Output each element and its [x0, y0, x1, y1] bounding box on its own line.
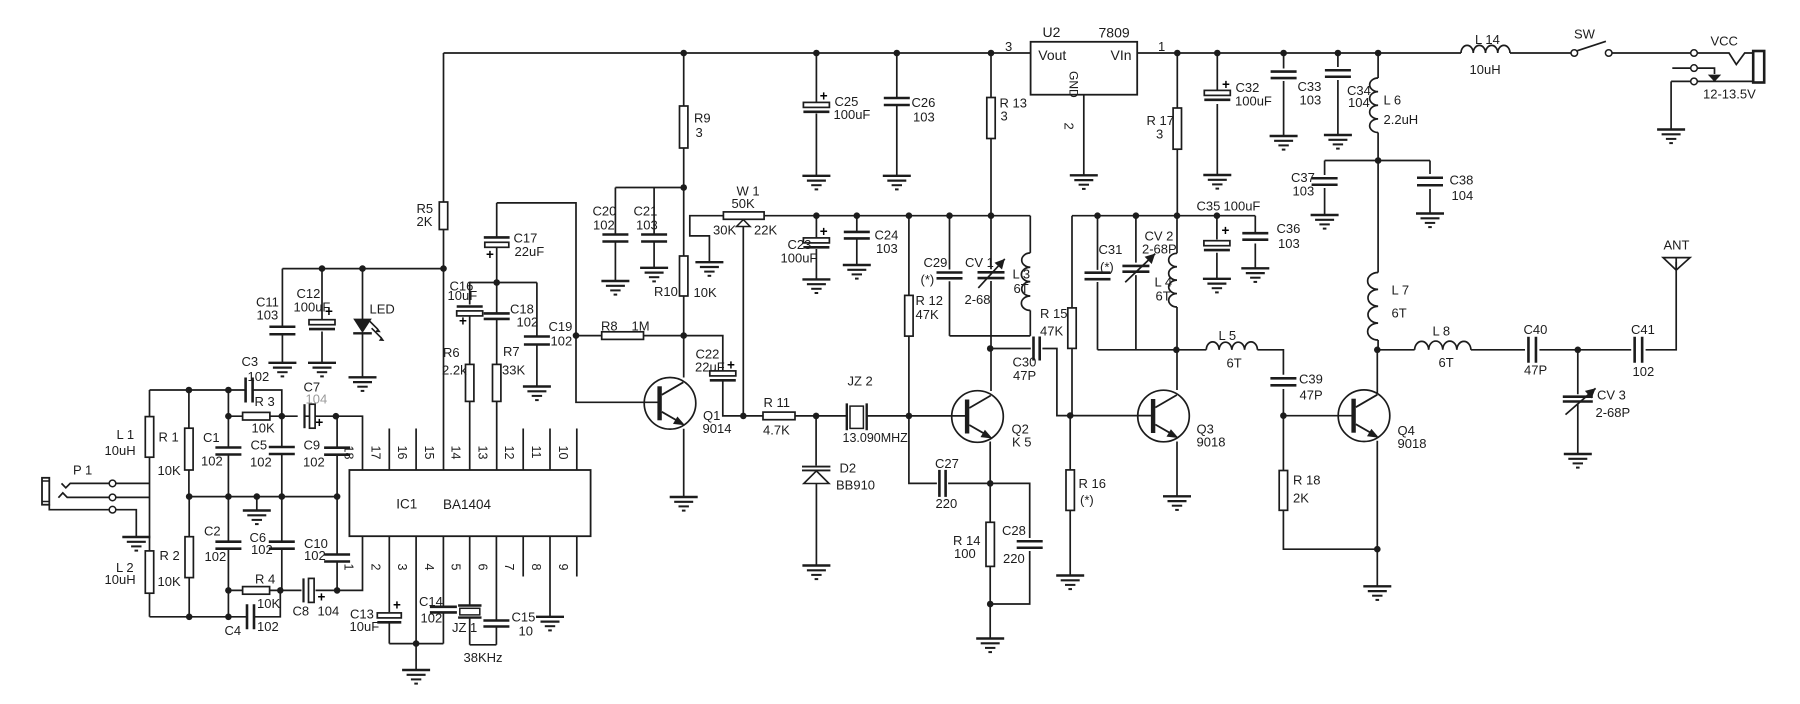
- wire C37: [1324, 161, 1326, 215]
- wire L4 line: [1176, 216, 1178, 350]
- svg-text:R 15: R 15: [1040, 306, 1067, 321]
- svg-text:5: 5: [449, 564, 463, 571]
- svg-text:C9: C9: [304, 438, 321, 453]
- svg-text:12: 12: [502, 446, 516, 460]
- wire C36: [1254, 216, 1256, 268]
- svg-text:102: 102: [1633, 364, 1655, 379]
- capacitor C22: [710, 358, 736, 381]
- ground C35: [1203, 279, 1231, 293]
- svg-text:100uF: 100uF: [294, 300, 331, 315]
- ground C11: [268, 363, 296, 377]
- resistor R9: [680, 106, 688, 148]
- resistor R17: [1173, 108, 1181, 149]
- ground Q1 emitter: [670, 497, 698, 511]
- wire C17: [496, 203, 498, 283]
- node R9 rail: [680, 50, 687, 57]
- svg-text:C29: C29: [924, 255, 948, 270]
- wire VCC sleeve: [1671, 80, 1753, 82]
- node CV2 rail: [1133, 212, 1140, 219]
- wire R9 top: [683, 53, 685, 106]
- capacitor C37: [1312, 178, 1338, 185]
- ground C12: [308, 363, 336, 377]
- wire L1-L2: [149, 457, 151, 551]
- node D2: [813, 413, 820, 420]
- wire tip contact: [62, 483, 110, 487]
- resistor R5: [439, 202, 447, 230]
- svg-text:15: 15: [422, 446, 436, 460]
- node R15-R16: [1067, 412, 1074, 419]
- svg-text:6T: 6T: [1439, 355, 1454, 370]
- svg-text:L 8: L 8: [1433, 324, 1451, 339]
- node CV1 rail: [988, 212, 995, 219]
- node C24 rail: [854, 212, 861, 219]
- svg-text:BB910: BB910: [836, 478, 875, 493]
- wire R15 line: [1071, 216, 1073, 416]
- resistor R2: [185, 537, 193, 578]
- wire C33: [1283, 53, 1285, 136]
- node wiper-R11: [740, 413, 747, 420]
- svg-text:R8: R8: [601, 319, 618, 334]
- wire C21: [653, 188, 655, 268]
- wire C20 C21 top: [615, 187, 683, 189]
- capacitor C14: [430, 607, 457, 613]
- capacitor C18: [484, 313, 510, 319]
- wire sleeve: [49, 505, 109, 510]
- ground W1: [695, 262, 723, 276]
- svg-text:22K: 22K: [754, 223, 777, 238]
- svg-text:C3: C3: [242, 354, 259, 369]
- wire L8 C40 C41 ANT: [1471, 262, 1676, 350]
- wire C38: [1429, 161, 1431, 214]
- wire base to C27: [909, 416, 937, 484]
- ground pin 8: [536, 617, 564, 631]
- svg-text:R10: R10: [654, 284, 678, 299]
- svg-text:47P: 47P: [1524, 363, 1547, 378]
- svg-text:VCC: VCC: [1711, 34, 1738, 49]
- svg-text:C36: C36: [1277, 221, 1301, 236]
- wire L5 to C39: [1257, 350, 1283, 416]
- wire Q2 collector: [990, 336, 992, 391]
- svg-text:103: 103: [1293, 184, 1315, 199]
- wire to C8: [280, 589, 301, 591]
- capacitor C21: [641, 235, 667, 242]
- capacitor C1: [215, 448, 241, 455]
- node Q2 collector: [987, 345, 994, 352]
- node mid gnd: [253, 493, 260, 500]
- svg-text:ANT: ANT: [1664, 238, 1690, 253]
- svg-text:9018: 9018: [1398, 436, 1427, 451]
- svg-text:R9: R9: [694, 111, 711, 126]
- svg-text:3: 3: [395, 564, 409, 571]
- ground C32: [1203, 175, 1231, 189]
- ground C19: [523, 387, 551, 401]
- tuning arrow CV2: [1125, 254, 1155, 283]
- svg-text:P 1: P 1: [73, 463, 92, 478]
- svg-text:1: 1: [1158, 39, 1165, 54]
- svg-text:(*): (*): [1100, 260, 1114, 275]
- svg-text:10: 10: [556, 446, 570, 460]
- node C7-C9: [333, 413, 340, 420]
- capacitor C32: [1204, 77, 1230, 100]
- wire to L8: [1377, 349, 1414, 351]
- svg-text:GND: GND: [1067, 71, 1081, 98]
- capacitor C25: [803, 89, 829, 112]
- node Q4 emitter-R18: [1374, 546, 1381, 553]
- wire C25: [815, 53, 817, 176]
- wire R4 leads: [228, 589, 280, 591]
- svg-text:6T: 6T: [1156, 289, 1171, 304]
- svg-text:38KHz: 38KHz: [464, 650, 503, 665]
- svg-text:102: 102: [250, 455, 272, 470]
- wire C12 drop: [321, 269, 323, 320]
- capacitor C10: [324, 555, 350, 562]
- wire C23: [815, 216, 817, 279]
- svg-text:LED: LED: [370, 302, 395, 317]
- svg-text:R6: R6: [443, 345, 460, 360]
- wire pin9 stub: [576, 536, 578, 576]
- crystal JZ2 13.090MHZ: [847, 403, 867, 430]
- inductor L8: [1415, 341, 1471, 350]
- ground C37: [1311, 215, 1339, 229]
- node R9-R10: [680, 184, 687, 191]
- svg-text:C5: C5: [251, 438, 268, 453]
- wire pin 10 stub: [576, 429, 578, 471]
- wire tip to L1: [116, 482, 150, 484]
- varactor diode D2 BB910: [802, 467, 830, 484]
- svg-text:7809: 7809: [1099, 25, 1130, 41]
- resistor R13: [987, 98, 995, 139]
- capacitor C17: [484, 237, 510, 262]
- ground Q3 emitter: [1163, 496, 1191, 510]
- node C9-C10: [334, 493, 341, 500]
- capacitor C23: [803, 224, 829, 247]
- capacitor C28: [1017, 541, 1043, 548]
- wire bottom rail C4: [150, 590, 281, 616]
- inductor L5: [1206, 342, 1257, 350]
- svg-text:102: 102: [421, 611, 443, 626]
- svg-text:14: 14: [449, 446, 463, 460]
- ground pins 2-4: [402, 670, 430, 684]
- svg-text:220: 220: [936, 496, 958, 511]
- wire R12 line: [908, 216, 910, 416]
- capacitor C16: [457, 307, 483, 329]
- node Q2 emitter: [987, 480, 994, 487]
- wire ring contact: [58, 493, 109, 498]
- node R4 right: [277, 587, 284, 594]
- transistor Q4: [1338, 390, 1390, 442]
- wire mid gnd rail: [189, 496, 337, 498]
- svg-text:L 14: L 14: [1475, 32, 1500, 47]
- svg-text:102: 102: [593, 218, 615, 233]
- capacitor C27: [939, 470, 945, 497]
- wire C18-R7: [496, 283, 498, 365]
- wire R8 leads: [576, 335, 684, 337]
- svg-text:102: 102: [248, 369, 270, 384]
- ground C25: [802, 176, 830, 190]
- node L4 rail: [1174, 212, 1181, 219]
- node C32 rail: [1214, 50, 1221, 57]
- svg-text:10K: 10K: [257, 596, 280, 611]
- capacitor C12: [309, 304, 335, 329]
- svg-text:10K: 10K: [694, 285, 717, 300]
- wire R13 top: [990, 53, 992, 98]
- svg-text:L 3: L 3: [1013, 267, 1031, 282]
- svg-text:104: 104: [1348, 95, 1370, 110]
- svg-text:L 7: L 7: [1392, 283, 1410, 298]
- svg-text:100: 100: [954, 546, 976, 561]
- svg-text:2.2uH: 2.2uH: [1384, 112, 1419, 127]
- ground Q2 emitter: [976, 639, 1004, 653]
- capacitor C2: [215, 542, 241, 549]
- wire Q4 collector: [1376, 350, 1378, 394]
- ground C34: [1324, 135, 1352, 149]
- ground P1 sleeve: [122, 537, 150, 551]
- wire LED drop: [362, 269, 364, 319]
- svg-text:(*): (*): [1080, 493, 1094, 508]
- wire C2 line: [227, 497, 229, 591]
- wire C16-R6: [469, 283, 471, 365]
- potentiometer W1: [723, 212, 764, 227]
- svg-text:+: +: [315, 415, 323, 430]
- svg-text:11: 11: [529, 446, 543, 459]
- svg-text:100uF: 100uF: [1235, 94, 1272, 109]
- wire W1 left gnd: [690, 216, 724, 262]
- wire C19: [536, 283, 538, 387]
- wire C29 line: [949, 216, 951, 336]
- ground LED: [349, 377, 377, 391]
- wire pin2 C13: [388, 536, 390, 643]
- svg-text:104: 104: [1452, 188, 1474, 203]
- capacitor C34: [1325, 70, 1351, 77]
- wire R1 line: [188, 390, 190, 497]
- svg-text:220: 220: [1003, 551, 1025, 566]
- wire pin13: [496, 401, 498, 470]
- wire C34: [1337, 53, 1339, 135]
- wire C10 line: [336, 497, 338, 591]
- wire C37 C38 row: [1325, 160, 1430, 162]
- wire tank2 rail: [1072, 215, 1255, 217]
- svg-text:100uF: 100uF: [834, 107, 871, 122]
- svg-text:33K: 33K: [502, 363, 525, 378]
- svg-text:6T: 6T: [1392, 306, 1407, 321]
- svg-text:BA1404: BA1404: [443, 497, 492, 512]
- wire R9-R10: [683, 148, 685, 256]
- wire tank1 bottom: [950, 335, 1031, 337]
- svg-text:104: 104: [318, 604, 340, 619]
- wire R18 loop: [1283, 416, 1377, 550]
- capacitor C41: [1635, 337, 1643, 363]
- wire R11 left: [743, 415, 763, 417]
- inductor L14: [1461, 45, 1510, 53]
- wire L6: [1377, 53, 1379, 161]
- svg-text:IC1: IC1: [396, 497, 417, 512]
- wire C7 left: [282, 415, 298, 417]
- svg-text:10uH: 10uH: [105, 443, 136, 458]
- node L6-L7: [1375, 157, 1382, 164]
- wire pin4 C14: [442, 536, 444, 643]
- wire sleeve gnd: [116, 510, 137, 536]
- wire C6 line: [281, 497, 283, 591]
- svg-text:102: 102: [303, 455, 325, 470]
- svg-text:102: 102: [205, 549, 227, 564]
- inductor L3: [1021, 253, 1030, 311]
- svg-text:C38: C38: [1450, 173, 1474, 188]
- wire C16-C19 row: [470, 282, 537, 284]
- wire C32: [1216, 53, 1218, 175]
- capacitor C7: [305, 404, 324, 430]
- capacitor C31: [1085, 273, 1111, 280]
- node C31 rail: [1094, 212, 1101, 219]
- wire L14 to SW: [1510, 52, 1571, 54]
- wire top rail left: [444, 52, 1031, 54]
- resistor R18: [1279, 471, 1287, 511]
- svg-text:U2: U2: [1043, 24, 1061, 40]
- wire R5 top: [443, 53, 445, 202]
- wire pin18: [337, 416, 362, 470]
- svg-text:103: 103: [257, 308, 279, 323]
- svg-text:+: +: [820, 89, 828, 104]
- capacitor C3: [246, 378, 253, 403]
- svg-text:R7: R7: [503, 344, 520, 359]
- node C26 rail: [894, 50, 901, 57]
- wire C5 line: [281, 416, 283, 496]
- svg-text:C39: C39: [1299, 372, 1323, 387]
- wire C31 line: [1097, 216, 1099, 350]
- svg-text:L 6: L 6: [1384, 93, 1402, 108]
- ground U2: [1070, 175, 1098, 189]
- node Q4 base: [1280, 412, 1287, 419]
- svg-text:C40: C40: [1524, 322, 1548, 337]
- node R13 rail: [988, 50, 995, 57]
- capacitor C30: [1034, 337, 1040, 361]
- resistor R3: [243, 412, 270, 420]
- ground D2: [802, 566, 830, 580]
- svg-text:10uF: 10uF: [350, 619, 380, 634]
- capacitor C33: [1271, 72, 1297, 79]
- wire Q4 base: [1283, 415, 1351, 417]
- connector pin circle: [109, 480, 116, 487]
- svg-text:47K: 47K: [916, 307, 939, 322]
- svg-text:30K: 30K: [713, 223, 736, 238]
- capacitor C35: [1204, 223, 1230, 250]
- wire gnd drop 234: [415, 644, 417, 670]
- node R1 top: [186, 387, 193, 394]
- wire Q4 emitter gnd: [1376, 441, 1378, 586]
- svg-text:50K: 50K: [732, 196, 755, 211]
- node pin3 gnd: [413, 640, 420, 647]
- node L6 rail: [1375, 50, 1382, 57]
- wire C7 right: [306, 415, 336, 417]
- tuning arrow CV3: [1566, 388, 1596, 414]
- wire C35: [1216, 216, 1218, 279]
- node Q3 collector: [1173, 347, 1180, 354]
- wire Q3 collector: [1176, 350, 1178, 390]
- resistor R12: [905, 295, 913, 336]
- svg-text:9014: 9014: [703, 421, 732, 436]
- svg-text:4: 4: [422, 564, 436, 571]
- wire pin6 C15: [495, 536, 497, 645]
- capacitor C38: [1417, 178, 1443, 186]
- wire R17: [1176, 53, 1178, 216]
- capacitor C5: [269, 447, 295, 454]
- svg-text:104: 104: [306, 392, 328, 407]
- ground C20: [601, 281, 629, 295]
- svg-text:C35: C35: [1197, 199, 1221, 214]
- capacitor CV2: [1122, 266, 1149, 272]
- svg-text:103: 103: [1300, 93, 1322, 108]
- ground C24: [843, 265, 871, 279]
- wire C11 drop: [281, 269, 283, 327]
- resistor R14: [986, 522, 994, 566]
- svg-text:C15: C15: [512, 610, 536, 625]
- wire pin3: [415, 536, 417, 643]
- wire JZ2-R12: [867, 415, 909, 417]
- node R17 rail: [1174, 50, 1181, 57]
- svg-text:+: +: [486, 247, 494, 262]
- svg-text:2: 2: [368, 564, 382, 571]
- svg-text:100uF: 100uF: [1224, 199, 1261, 214]
- svg-text:6: 6: [475, 564, 489, 571]
- wire pins234 bottom: [389, 643, 443, 645]
- svg-text:102: 102: [551, 334, 573, 349]
- wire pin8 gnd: [549, 536, 551, 617]
- capacitor C9: [324, 448, 350, 455]
- wire L7 line: [1377, 161, 1379, 350]
- svg-text:VIn: VIn: [1111, 47, 1132, 63]
- node R8 left: [573, 332, 580, 339]
- svg-text:C14: C14: [419, 594, 443, 609]
- wire input top: [150, 390, 282, 416]
- transistor Q3: [1138, 390, 1190, 442]
- node C8-C10: [334, 587, 341, 594]
- resistor R4: [243, 587, 270, 595]
- wire C9 line: [336, 416, 338, 496]
- wire JZ1-C15 bottom: [470, 644, 497, 646]
- wire SW to VCC: [1612, 52, 1691, 54]
- svg-text:47K: 47K: [1040, 324, 1063, 339]
- antenna ANT: [1663, 258, 1690, 271]
- wire Q1 collector: [683, 336, 685, 378]
- node C17-C18 junction: [493, 279, 500, 286]
- node R14-C28: [987, 601, 994, 608]
- svg-text:+: +: [727, 358, 735, 373]
- svg-text:2-68: 2-68: [965, 292, 991, 307]
- capacitor C36: [1242, 233, 1268, 240]
- svg-text:C20: C20: [593, 204, 617, 219]
- transistor Q1: [644, 378, 696, 430]
- ground C36: [1241, 268, 1269, 282]
- wire R11-JZ2: [795, 415, 847, 417]
- svg-text:C27: C27: [935, 456, 959, 471]
- wire C12 gnd: [321, 332, 323, 363]
- svg-text:C31: C31: [1099, 242, 1123, 257]
- svg-text:13: 13: [475, 446, 489, 460]
- resistor R7: [493, 364, 501, 401]
- resistor R6: [466, 364, 474, 401]
- capacitor CV3: [1563, 397, 1593, 402]
- svg-text:2K: 2K: [1293, 491, 1309, 506]
- wire tank2 bottom: [1098, 349, 1207, 351]
- svg-text:10K: 10K: [158, 463, 181, 478]
- svg-text:R 11: R 11: [764, 395, 791, 410]
- wire C17top to R8: [497, 203, 576, 336]
- svg-text:R 4: R 4: [255, 572, 275, 587]
- svg-text:102: 102: [251, 542, 273, 557]
- svg-text:3: 3: [1005, 39, 1012, 54]
- wire pin 16 stub: [415, 429, 417, 471]
- svg-text:2.2k: 2.2k: [442, 363, 467, 378]
- wire pin 11 stub: [549, 429, 551, 471]
